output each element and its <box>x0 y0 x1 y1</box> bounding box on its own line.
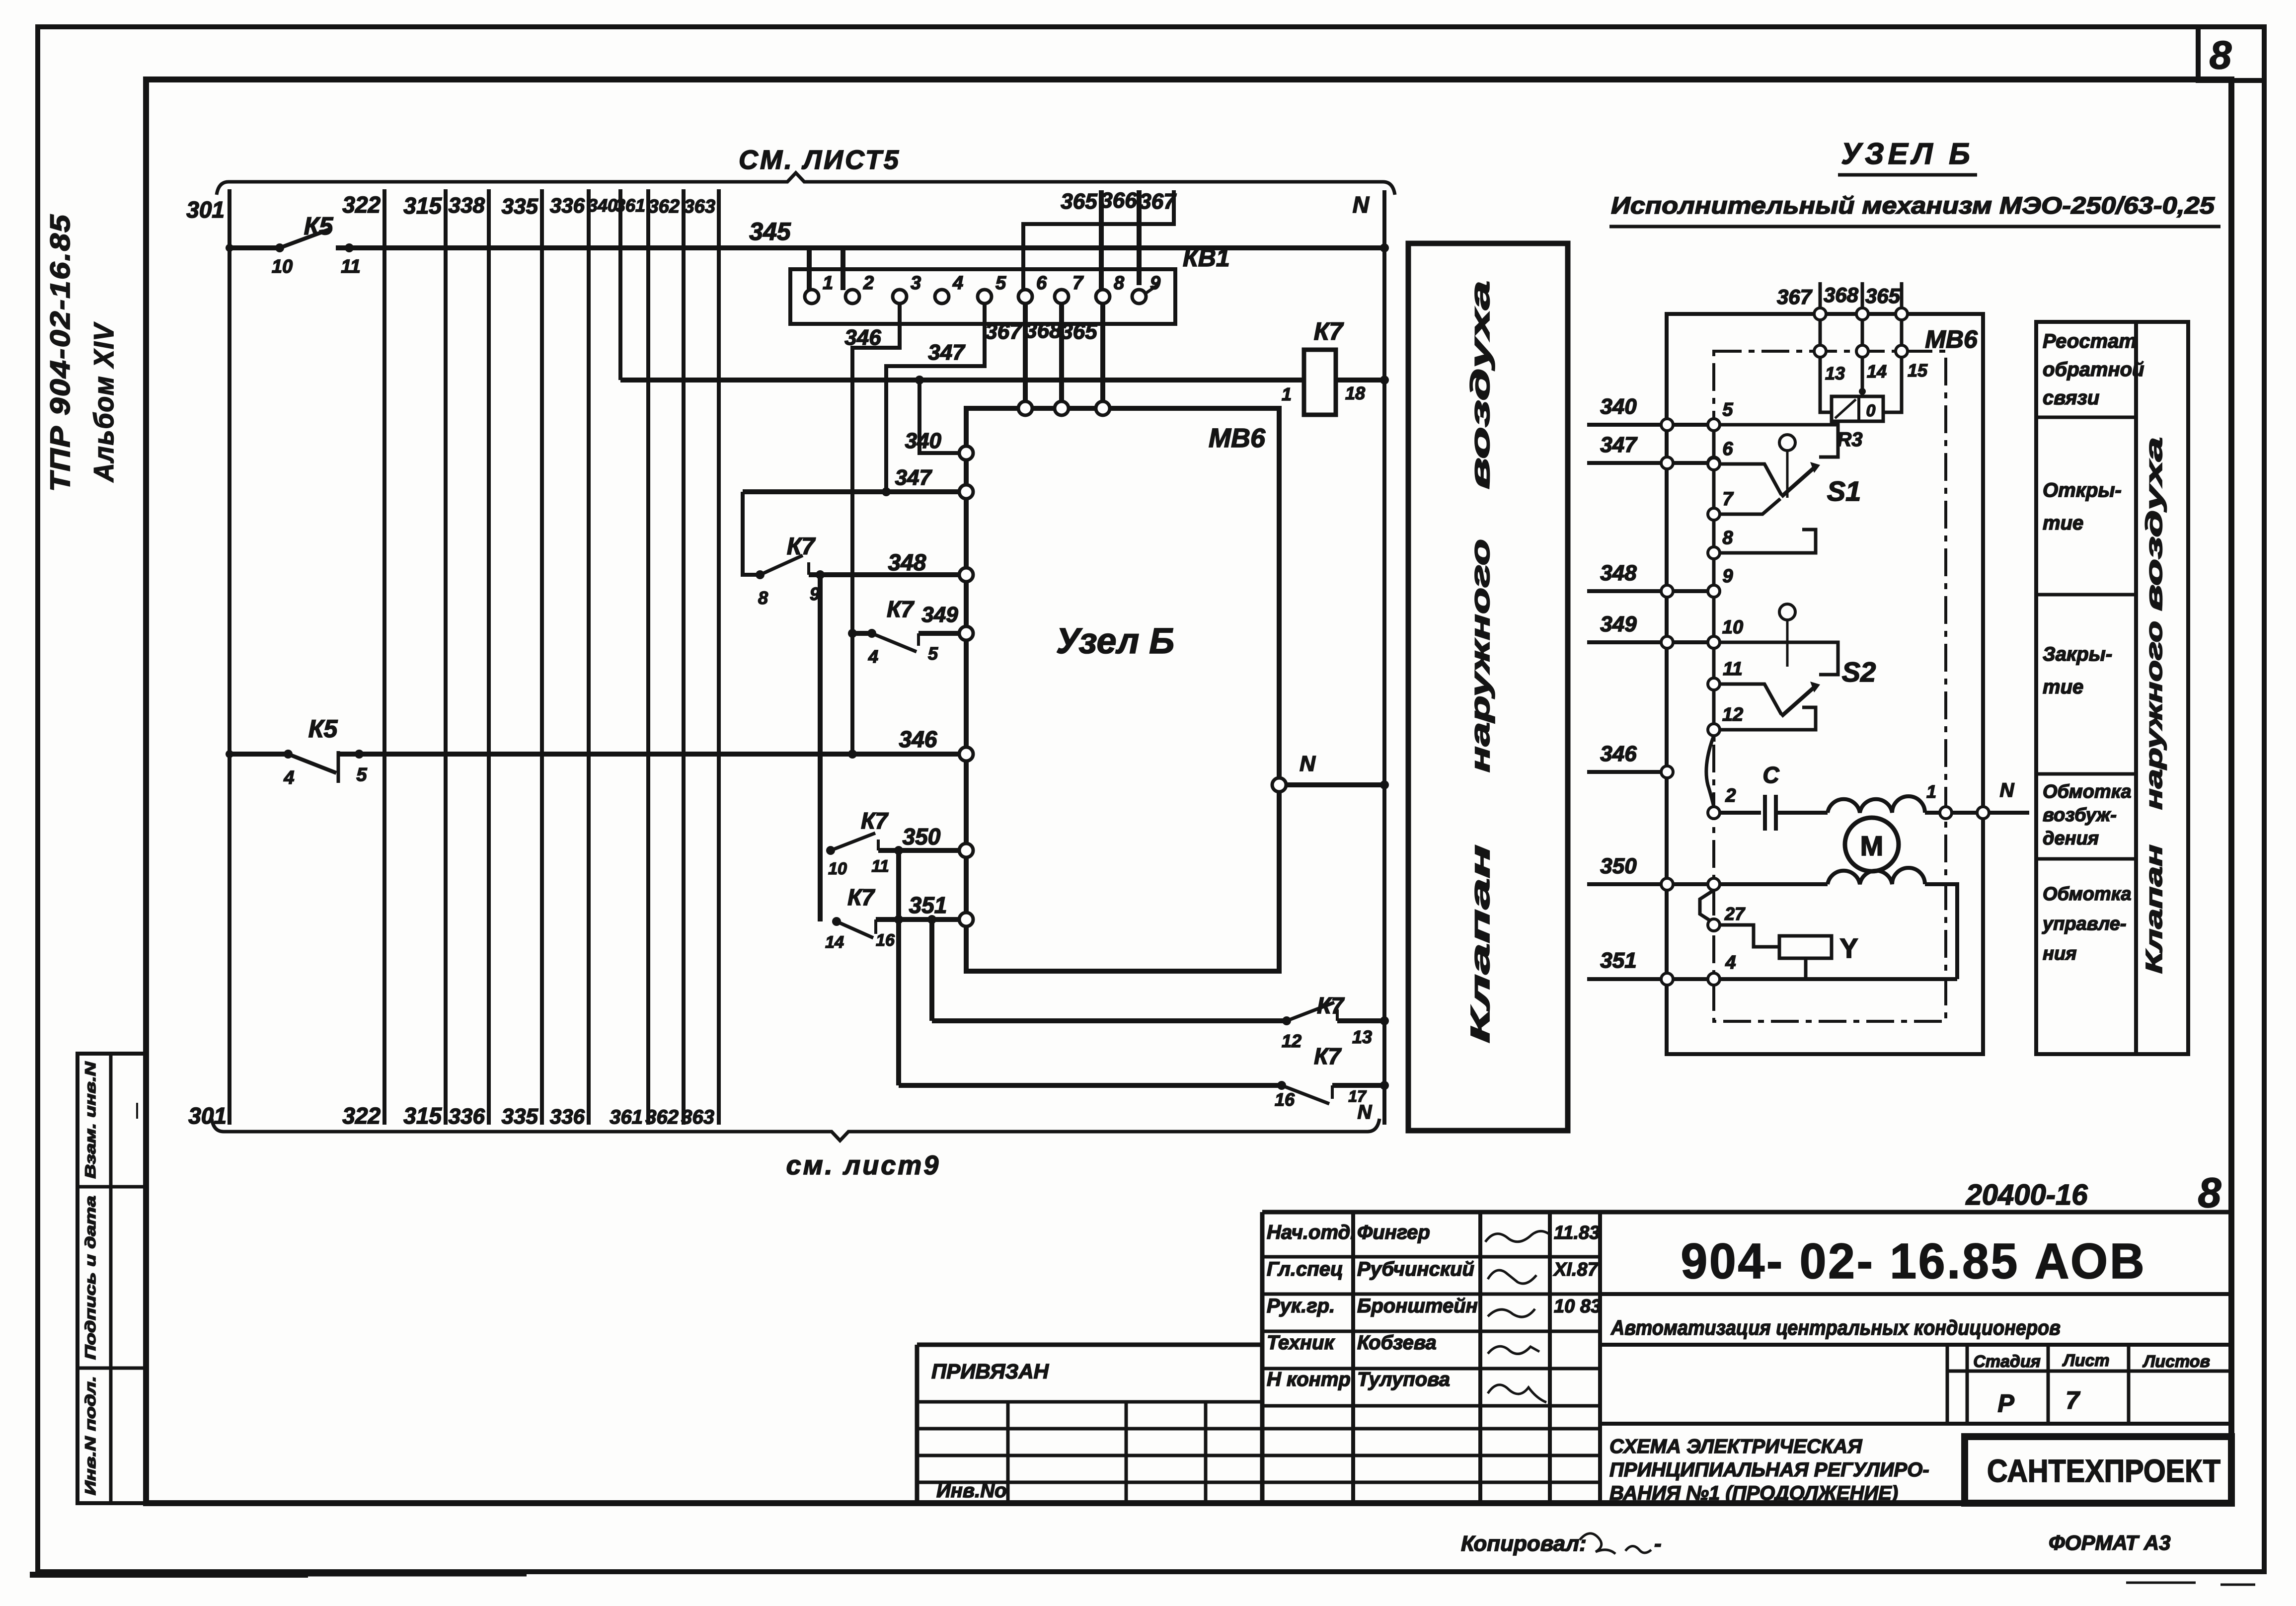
svg-text:тие: тие <box>2043 676 2083 698</box>
svg-text:365: 365 <box>1865 284 1901 307</box>
svg-text:335: 335 <box>502 194 538 219</box>
svg-text:8: 8 <box>1114 273 1125 294</box>
svg-text:возбуж-: возбуж- <box>2043 805 2117 826</box>
svg-text:N: N <box>1358 1101 1373 1123</box>
svg-text:N: N <box>2000 779 2015 801</box>
svg-text:10: 10 <box>272 256 293 277</box>
svg-text:Инв.N подл.: Инв.N подл. <box>82 1376 99 1495</box>
svg-text:12: 12 <box>1282 1031 1301 1051</box>
svg-text:дения: дения <box>2043 828 2099 849</box>
svg-text:11: 11 <box>341 256 360 277</box>
svg-text:ФОРМАТ А3: ФОРМАТ А3 <box>2049 1531 2171 1554</box>
svg-text:340: 340 <box>588 195 617 216</box>
svg-text:5: 5 <box>995 273 1006 294</box>
svg-text:К7: К7 <box>1314 317 1344 345</box>
svg-text:ПРИВЯЗАН: ПРИВЯЗАН <box>931 1360 1050 1383</box>
svg-text:Автоматизация центральных ко: Автоматизация центральных кондиционеров <box>1610 1316 2061 1339</box>
svg-text:322: 322 <box>342 192 381 218</box>
svg-text:Тулупова: Тулупова <box>1357 1369 1450 1390</box>
svg-text:315: 315 <box>403 1103 442 1129</box>
svg-text:S1: S1 <box>1827 475 1861 507</box>
svg-text:315: 315 <box>403 193 442 219</box>
svg-text:МВ6: МВ6 <box>1209 423 1266 453</box>
svg-text:Подпись и дата: Подпись и дата <box>82 1196 99 1360</box>
svg-text:368: 368 <box>1824 283 1859 306</box>
svg-text:Откры-: Откры- <box>2043 479 2122 501</box>
svg-text:ВАНИЯ №1 (ПРОДОЛЖЕНИЕ): ВАНИЯ №1 (ПРОДОЛЖЕНИЕ) <box>1609 1482 1898 1504</box>
svg-text:347: 347 <box>1600 433 1638 457</box>
svg-text:346: 346 <box>899 726 937 752</box>
svg-text:5: 5 <box>928 643 938 664</box>
svg-text:345: 345 <box>749 218 791 245</box>
svg-text:Y: Y <box>1839 932 1858 964</box>
svg-text:Исполнительный механизм МЭО-2: Исполнительный механизм МЭО-250/63-0,25 <box>1611 193 2215 219</box>
svg-text:6: 6 <box>1722 439 1733 459</box>
svg-text:4: 4 <box>952 273 963 294</box>
svg-text:365: 365 <box>1061 189 1097 214</box>
svg-text:350: 350 <box>1600 854 1637 878</box>
svg-text:Стадия: Стадия <box>1973 1352 2041 1371</box>
svg-text:Обмотка: Обмотка <box>2043 781 2132 802</box>
svg-text:Бронштейн: Бронштейн <box>1357 1295 1478 1317</box>
svg-text:К7: К7 <box>861 808 889 834</box>
svg-text:4: 4 <box>1725 952 1736 973</box>
svg-text:Клапан: Клапан <box>2141 844 2167 974</box>
svg-text:2: 2 <box>1725 785 1736 806</box>
svg-text:363: 363 <box>681 1106 714 1128</box>
svg-text:К7: К7 <box>887 596 915 622</box>
svg-text:9: 9 <box>1722 566 1733 587</box>
svg-text:N: N <box>1353 192 1370 218</box>
svg-text:322: 322 <box>342 1103 381 1129</box>
svg-text:1: 1 <box>823 273 833 294</box>
svg-text:Взам. инв.N: Взам. инв.N <box>82 1061 99 1179</box>
svg-text:346: 346 <box>844 325 881 350</box>
svg-text:К7: К7 <box>787 534 816 560</box>
svg-text:тие: тие <box>2043 512 2083 534</box>
svg-text:4: 4 <box>283 767 294 788</box>
svg-text:8: 8 <box>758 588 768 608</box>
svg-text:1: 1 <box>1926 781 1936 802</box>
svg-text:8: 8 <box>1722 528 1733 548</box>
svg-text:10: 10 <box>828 859 847 878</box>
svg-text:7: 7 <box>1072 273 1084 294</box>
svg-text:11: 11 <box>1723 659 1742 680</box>
svg-text:7: 7 <box>1722 489 1734 510</box>
svg-text:365: 365 <box>1061 319 1097 344</box>
svg-text:367: 367 <box>1777 285 1813 308</box>
svg-text:11.83: 11.83 <box>1554 1223 1600 1243</box>
svg-text:Листов: Листов <box>2142 1352 2210 1371</box>
svg-text:349: 349 <box>1600 612 1637 636</box>
svg-text:N: N <box>1300 752 1316 776</box>
svg-text:348: 348 <box>1600 561 1637 585</box>
svg-text:СМ. ЛИСТ5: СМ. ЛИСТ5 <box>739 145 901 175</box>
svg-text:7: 7 <box>2066 1386 2080 1414</box>
svg-text:Рук.гр.: Рук.гр. <box>1267 1295 1335 1317</box>
svg-text:1: 1 <box>1282 384 1292 404</box>
svg-text:363: 363 <box>684 196 715 217</box>
svg-text:10 83: 10 83 <box>1554 1296 1601 1317</box>
svg-text:346: 346 <box>1600 742 1637 766</box>
svg-text:351: 351 <box>1600 948 1636 973</box>
svg-text:М: М <box>1860 830 1884 861</box>
svg-text:связи: связи <box>2043 387 2099 409</box>
svg-text:СХЕМА ЭЛЕКТРИЧЕСКАЯ: СХЕМА ЭЛЕКТРИЧЕСКАЯ <box>1609 1436 1862 1457</box>
svg-text:14: 14 <box>1867 361 1887 382</box>
svg-text:Р: Р <box>1997 1389 2014 1417</box>
svg-text:воздуха: воздуха <box>2141 437 2167 611</box>
svg-text:К7: К7 <box>1314 1043 1342 1069</box>
svg-text:301: 301 <box>186 197 225 223</box>
svg-text:см. лист9: см. лист9 <box>786 1150 941 1180</box>
svg-text:13: 13 <box>1352 1027 1372 1047</box>
svg-text:К5: К5 <box>308 715 338 743</box>
svg-text:12: 12 <box>1722 704 1743 725</box>
svg-text:Альбом XIV: Альбом XIV <box>88 322 119 483</box>
svg-text:349: 349 <box>921 603 958 627</box>
svg-text:Узел Б: Узел Б <box>1056 621 1175 661</box>
svg-text:Нач.отд.: Нач.отд. <box>1267 1222 1356 1243</box>
svg-text:наружного: наружного <box>1465 539 1495 772</box>
svg-text:8: 8 <box>2210 33 2232 77</box>
svg-text:16: 16 <box>1275 1089 1295 1110</box>
svg-text:R3: R3 <box>1837 429 1862 451</box>
svg-text:16: 16 <box>876 931 895 950</box>
svg-text:350: 350 <box>903 824 941 849</box>
svg-text:Н контр: Н контр <box>1267 1369 1351 1390</box>
svg-text:336: 336 <box>550 194 585 217</box>
svg-text:10: 10 <box>1722 617 1743 638</box>
svg-text:S2: S2 <box>1842 656 1876 688</box>
svg-text:C: C <box>1762 762 1779 788</box>
svg-text:УЗЕЛ Б: УЗЕЛ Б <box>1841 137 1974 170</box>
svg-text:366: 366 <box>1100 188 1137 213</box>
svg-text:367: 367 <box>985 319 1023 344</box>
svg-text:Гл.спец: Гл.спец <box>1267 1258 1343 1280</box>
svg-text:Фингер: Фингер <box>1357 1222 1430 1243</box>
svg-text:367: 367 <box>1139 189 1177 214</box>
svg-text:Рубчинский: Рубчинский <box>1357 1258 1474 1280</box>
svg-text:3: 3 <box>911 273 921 294</box>
svg-text:362: 362 <box>648 196 680 217</box>
svg-text:351: 351 <box>909 892 947 918</box>
svg-text:904- 02- 16.85 АОВ: 904- 02- 16.85 АОВ <box>1681 1233 2146 1289</box>
svg-text:335: 335 <box>502 1104 538 1129</box>
svg-text:МВ6: МВ6 <box>1925 325 1978 353</box>
svg-text:338: 338 <box>449 193 485 218</box>
svg-text:15: 15 <box>1908 360 1928 381</box>
svg-text:КВ1: КВ1 <box>1183 244 1230 272</box>
svg-text:11: 11 <box>871 857 889 876</box>
svg-text:18: 18 <box>1345 383 1365 403</box>
svg-text:Лист: Лист <box>2062 1351 2109 1370</box>
svg-text:8: 8 <box>2198 1169 2221 1216</box>
svg-text:Клапан: Клапан <box>1465 844 1495 1043</box>
svg-text:301: 301 <box>188 1103 227 1129</box>
svg-text:ТПР 904-02-16.85: ТПР 904-02-16.85 <box>44 214 76 492</box>
svg-text:К7: К7 <box>847 884 875 910</box>
svg-text:К5: К5 <box>304 212 334 240</box>
svg-text:Инв.No: Инв.No <box>936 1480 1007 1502</box>
svg-text:6: 6 <box>1036 273 1047 294</box>
svg-text:Реостат: Реостат <box>2043 330 2137 352</box>
svg-text:4: 4 <box>868 646 878 667</box>
svg-text:0: 0 <box>1866 401 1876 420</box>
svg-text:340: 340 <box>905 429 942 453</box>
svg-text:Кобзева: Кобзева <box>1357 1332 1437 1354</box>
svg-text:13: 13 <box>1825 363 1845 383</box>
svg-text:ПРИНЦИПИАЛЬНАЯ РЕГУЛИРО-: ПРИНЦИПИАЛЬНАЯ РЕГУЛИРО- <box>1609 1459 1929 1481</box>
svg-text:САНТЕХПРОЕКТ: САНТЕХПРОЕКТ <box>1987 1453 2220 1489</box>
svg-text:14: 14 <box>825 933 844 952</box>
svg-text:управле-: управле- <box>2042 914 2127 934</box>
svg-text:5: 5 <box>1722 399 1733 420</box>
svg-text:340: 340 <box>1600 394 1637 419</box>
svg-text:5: 5 <box>356 765 367 785</box>
svg-text:336: 336 <box>550 1105 585 1128</box>
svg-text:361: 361 <box>610 1106 643 1128</box>
svg-text:-: - <box>1654 1531 1662 1556</box>
svg-text:обратной: обратной <box>2043 359 2144 381</box>
svg-text:Копировал:: Копировал: <box>1461 1531 1587 1556</box>
svg-text:К7: К7 <box>1317 993 1345 1018</box>
svg-text:наружного: наружного <box>2141 621 2167 810</box>
svg-text:ния: ния <box>2043 943 2077 964</box>
svg-text:368: 368 <box>1025 318 1062 343</box>
svg-text:347: 347 <box>928 340 966 365</box>
svg-text:361: 361 <box>615 195 645 216</box>
svg-text:362: 362 <box>645 1106 679 1128</box>
svg-text:воздуха: воздуха <box>1465 281 1495 489</box>
svg-text:336: 336 <box>449 1104 485 1129</box>
svg-text:Обмотка: Обмотка <box>2043 884 2132 905</box>
svg-text:2: 2 <box>863 273 874 294</box>
svg-text:348: 348 <box>888 549 926 575</box>
svg-text:XI.87: XI.87 <box>1553 1259 1599 1280</box>
svg-text:347: 347 <box>895 465 933 490</box>
svg-text:Закры-: Закры- <box>2043 643 2112 665</box>
svg-text:20400-16: 20400-16 <box>1965 1179 2088 1211</box>
svg-text:Техник: Техник <box>1267 1332 1335 1354</box>
svg-text:27: 27 <box>1724 904 1746 924</box>
